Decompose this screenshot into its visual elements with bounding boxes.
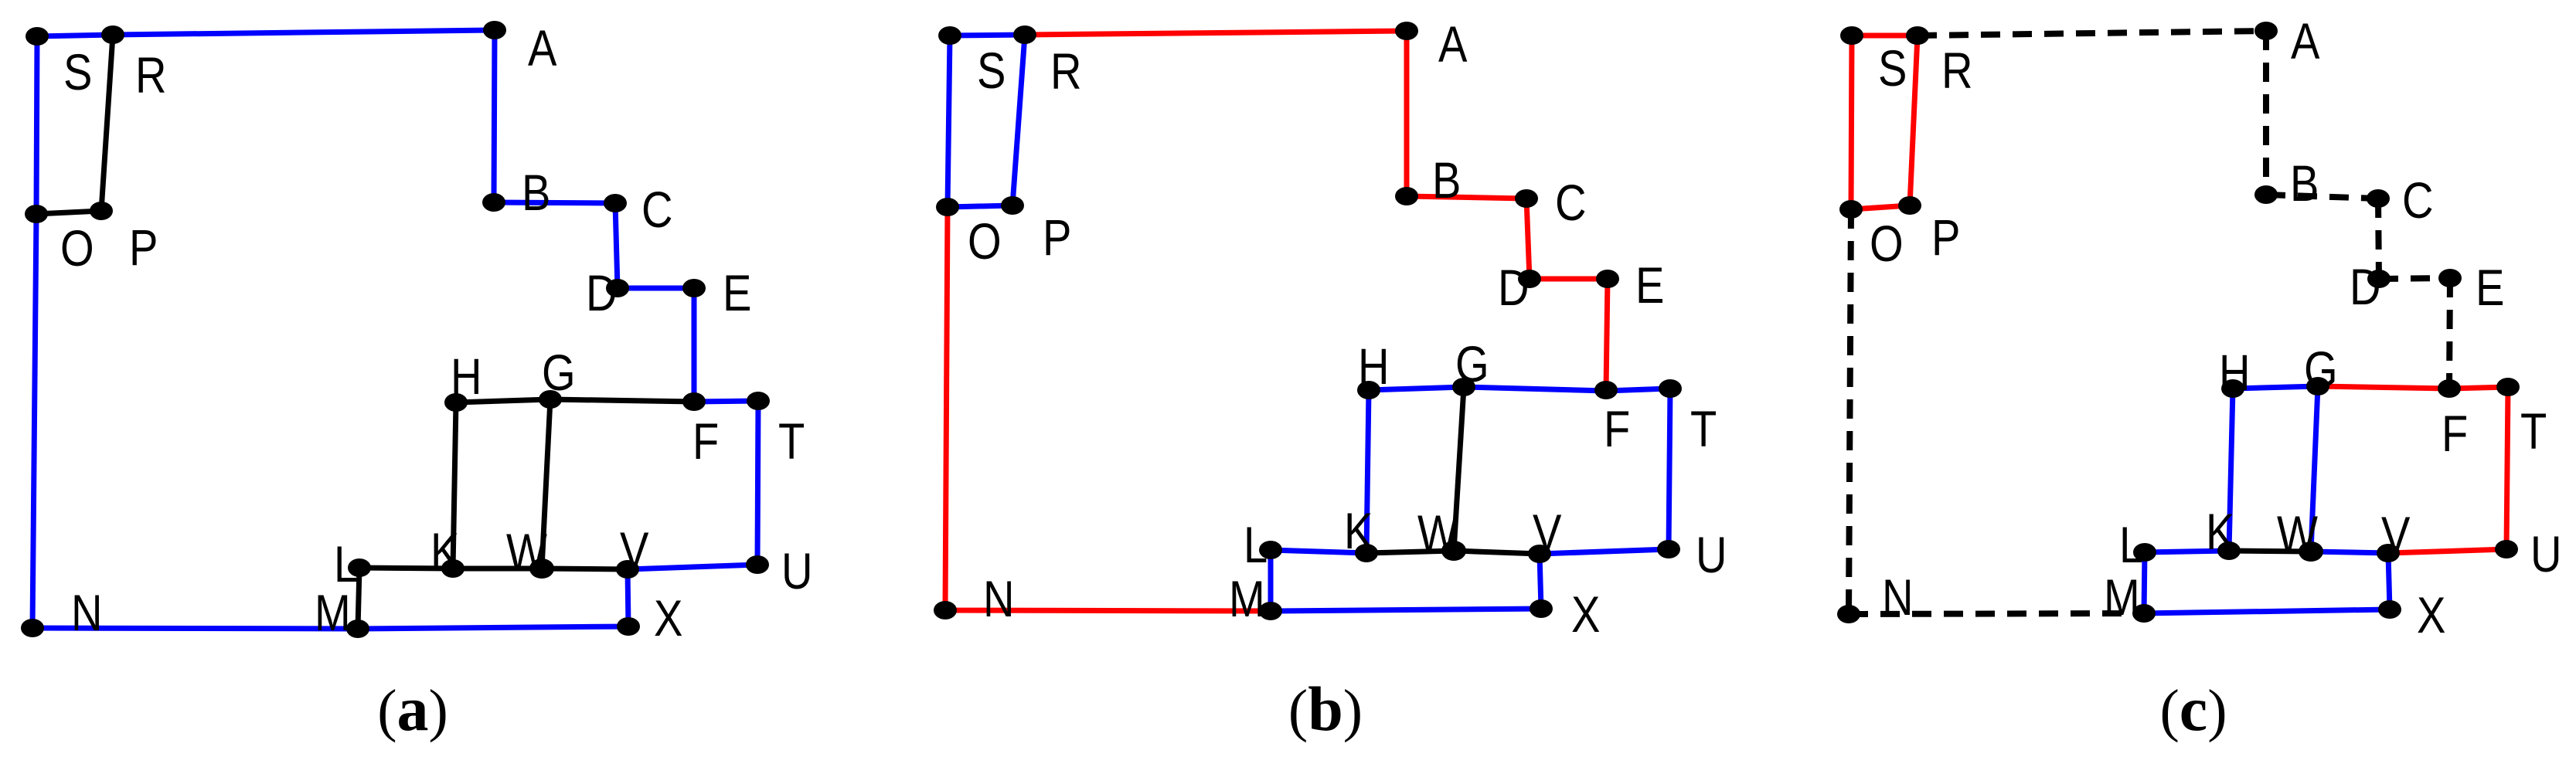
svg-text:H: H bbox=[1358, 338, 1390, 395]
svg-text:T: T bbox=[2520, 403, 2547, 460]
wire blue c: H-G bbox=[2233, 386, 2318, 389]
wire blue b: M-L-K bbox=[1271, 550, 1366, 611]
wire blue a: T-U-V bbox=[628, 401, 758, 569]
node B b bbox=[1395, 187, 1418, 205]
node F a bbox=[682, 392, 706, 411]
wire blue c: H-K bbox=[2229, 389, 2233, 551]
svg-text:D: D bbox=[1498, 260, 1530, 316]
node W c bbox=[2299, 541, 2323, 562]
svg-text:L: L bbox=[1244, 517, 1268, 573]
svg-text:N: N bbox=[983, 571, 1015, 627]
wire black b: G-W bbox=[1454, 387, 1464, 551]
wire dashed black c: B-C bbox=[2266, 195, 2378, 199]
node R a bbox=[101, 25, 124, 44]
wire blue b: rectangle S-R-P-O bbox=[948, 35, 1025, 207]
svg-text:A: A bbox=[2291, 13, 2320, 70]
svg-text:G: G bbox=[1455, 336, 1489, 392]
wire blue c: W-V bbox=[2311, 552, 2388, 553]
node G a bbox=[539, 390, 562, 409]
node C b bbox=[1515, 189, 1538, 208]
node L a bbox=[348, 558, 371, 577]
svg-text:W: W bbox=[506, 524, 547, 580]
wire black a: H-K bbox=[453, 402, 456, 569]
svg-text:S: S bbox=[1878, 40, 1907, 97]
svg-text:P: P bbox=[1931, 209, 1960, 266]
node W a bbox=[529, 558, 554, 579]
svg-text:P: P bbox=[129, 219, 158, 276]
wire dashed black c: O-N bbox=[1849, 209, 1851, 614]
svg-text:T: T bbox=[778, 413, 805, 470]
node O c bbox=[1839, 200, 1863, 219]
node P b bbox=[1001, 196, 1024, 215]
node O b bbox=[936, 198, 959, 216]
node V b bbox=[1528, 545, 1551, 563]
wire red b: R-A-B-C-D-E-F bbox=[1025, 31, 1608, 390]
wire dashed black c: E-F bbox=[2449, 278, 2450, 389]
wire black a: L-K-W-V bbox=[359, 568, 628, 569]
wire blue a: N-O-S bbox=[32, 36, 37, 628]
node R b bbox=[1013, 25, 1036, 44]
node G c bbox=[2306, 377, 2329, 395]
node W b bbox=[1441, 541, 1466, 561]
svg-text:D: D bbox=[2350, 259, 2381, 315]
node N b bbox=[934, 601, 957, 620]
node A b bbox=[1395, 22, 1418, 40]
wire blue a: F-T bbox=[694, 401, 758, 402]
svg-text:M: M bbox=[2104, 569, 2140, 626]
svg-text:G: G bbox=[542, 345, 576, 401]
node V a bbox=[616, 560, 639, 579]
node D c bbox=[2367, 270, 2391, 288]
svg-text:C: C bbox=[1555, 175, 1587, 231]
svg-text:O: O bbox=[968, 213, 1002, 270]
wire blue b: H-K bbox=[1366, 390, 1369, 553]
node U c bbox=[2495, 540, 2518, 558]
svg-text:O: O bbox=[60, 220, 94, 277]
wire blue b: T-U-V bbox=[1540, 389, 1670, 554]
node V c bbox=[2377, 544, 2400, 562]
node T c bbox=[2496, 378, 2520, 396]
node D a bbox=[606, 279, 629, 297]
wire black a: R-P bbox=[101, 35, 113, 211]
node E a bbox=[682, 279, 706, 297]
svg-text:D: D bbox=[586, 265, 618, 321]
svg-text:R: R bbox=[1941, 42, 1973, 99]
node X a bbox=[617, 617, 640, 636]
node B c bbox=[2254, 185, 2278, 204]
wire blue c: L-K bbox=[2145, 551, 2229, 552]
node K a bbox=[441, 559, 464, 578]
svg-text:F: F bbox=[1604, 401, 1630, 457]
node C c bbox=[2367, 189, 2390, 208]
svg-text:N: N bbox=[71, 585, 103, 641]
wire blue a: V-X-M-N bbox=[32, 569, 628, 629]
wire dashed black c: R-A bbox=[1918, 31, 2266, 36]
wire black a: P-O bbox=[36, 211, 101, 214]
node A c bbox=[2254, 22, 2278, 40]
svg-text:X: X bbox=[1571, 586, 1600, 643]
node S c bbox=[1840, 26, 1863, 45]
svg-text:B: B bbox=[2290, 155, 2319, 212]
svg-text:P: P bbox=[1043, 209, 1071, 266]
svg-text:N: N bbox=[1882, 569, 1914, 626]
svg-text:L: L bbox=[2119, 517, 2143, 573]
node K c bbox=[2217, 541, 2241, 560]
svg-text:H: H bbox=[2219, 345, 2251, 401]
wire blue a: S-R-A-B-C-D-E-F bbox=[37, 30, 694, 402]
svg-text:C: C bbox=[641, 182, 673, 238]
svg-text:E: E bbox=[1635, 257, 1664, 314]
node O a bbox=[25, 205, 48, 223]
wire dashed black c: D-E bbox=[2379, 278, 2450, 279]
svg-text:L: L bbox=[334, 536, 358, 592]
svg-text:R: R bbox=[1050, 43, 1082, 100]
node S b bbox=[938, 26, 961, 45]
node U b bbox=[1657, 540, 1680, 558]
svg-text:V: V bbox=[1533, 504, 1562, 561]
svg-text:K: K bbox=[2206, 504, 2235, 560]
svg-text:R: R bbox=[135, 47, 167, 104]
wire red c: T-U-V bbox=[2388, 387, 2508, 553]
svg-text:B: B bbox=[522, 165, 550, 221]
svg-text:T: T bbox=[1690, 401, 1717, 457]
svg-text:E: E bbox=[2476, 260, 2504, 316]
svg-text:(c): (c) bbox=[2159, 674, 2227, 744]
node A a bbox=[483, 21, 506, 39]
node N c bbox=[1837, 605, 1860, 623]
node X c bbox=[2378, 600, 2401, 619]
svg-text:F: F bbox=[2442, 406, 2468, 462]
wire blue b: H-G-F-T bbox=[1369, 387, 1670, 391]
node R c bbox=[1906, 26, 1929, 45]
node H c bbox=[2221, 379, 2244, 398]
node E c bbox=[2438, 269, 2462, 287]
node S a bbox=[26, 27, 49, 46]
node P a bbox=[90, 202, 113, 220]
svg-text:K: K bbox=[1344, 503, 1373, 559]
svg-text:B: B bbox=[1432, 152, 1461, 209]
node X b bbox=[1530, 599, 1553, 618]
node H b bbox=[1357, 381, 1380, 399]
svg-text:H: H bbox=[451, 348, 482, 405]
node M a bbox=[346, 620, 369, 638]
node L c bbox=[2133, 543, 2156, 562]
node G b bbox=[1452, 378, 1475, 396]
node T a bbox=[747, 392, 770, 410]
svg-text:(a): (a) bbox=[377, 674, 448, 744]
wire dashed black c: N-M bbox=[1849, 613, 2144, 614]
svg-text:A: A bbox=[1438, 16, 1468, 73]
svg-text:W: W bbox=[1417, 505, 1458, 562]
wire black a: G-W bbox=[542, 399, 550, 569]
node B a bbox=[482, 193, 505, 212]
svg-text:M: M bbox=[315, 585, 351, 641]
svg-text:X: X bbox=[654, 590, 682, 647]
wire dashed black c: A-B bbox=[2263, 31, 2269, 195]
wire red c: rectangle S-R-P-O bbox=[1851, 36, 1918, 209]
node U a bbox=[746, 555, 769, 574]
svg-text:U: U bbox=[781, 543, 813, 599]
node D b bbox=[1518, 270, 1541, 288]
svg-text:S: S bbox=[977, 42, 1006, 99]
svg-text:G: G bbox=[2304, 341, 2338, 398]
wire black c: K-W bbox=[2229, 551, 2311, 552]
svg-text:E: E bbox=[723, 265, 751, 321]
node K b bbox=[1355, 544, 1378, 562]
svg-text:K: K bbox=[430, 523, 460, 579]
node H a bbox=[444, 393, 468, 412]
node N a bbox=[21, 619, 44, 637]
node T b bbox=[1659, 379, 1682, 398]
node M b bbox=[1259, 602, 1282, 620]
node C a bbox=[604, 194, 627, 212]
node L b bbox=[1259, 541, 1282, 559]
svg-text:C: C bbox=[2402, 172, 2434, 229]
svg-text:U: U bbox=[2530, 526, 2562, 582]
node P c bbox=[1898, 196, 1921, 215]
wire blue c: M-X bbox=[2144, 609, 2390, 613]
wire black a: H-G-F bbox=[456, 399, 694, 402]
svg-text:V: V bbox=[2381, 507, 2411, 563]
wire blue c: X-V bbox=[2388, 553, 2390, 609]
node E b bbox=[1596, 270, 1619, 288]
svg-text:W: W bbox=[2277, 506, 2318, 562]
wire black a: L-M bbox=[358, 568, 359, 629]
node M c bbox=[2132, 604, 2156, 623]
svg-text:U: U bbox=[1696, 527, 1727, 583]
svg-text:A: A bbox=[528, 20, 557, 76]
wire red c: G-F-T bbox=[2318, 386, 2508, 389]
svg-text:O: O bbox=[1870, 216, 1904, 272]
svg-text:X: X bbox=[2417, 587, 2445, 643]
svg-text:V: V bbox=[620, 522, 649, 579]
wire red b: O-N-M bbox=[945, 207, 1271, 611]
wire blue b: V-X-M bbox=[1271, 554, 1541, 611]
wire black b: K-W-V bbox=[1366, 551, 1540, 554]
wire blue c: L-M bbox=[2144, 552, 2145, 613]
node F b bbox=[1594, 381, 1618, 399]
svg-text:M: M bbox=[1229, 571, 1265, 627]
wire blue c: G-W bbox=[2311, 386, 2318, 552]
wire dashed black c: C-D bbox=[2378, 199, 2379, 279]
node F c bbox=[2438, 379, 2461, 398]
svg-text:S: S bbox=[63, 44, 92, 100]
svg-text:F: F bbox=[692, 413, 719, 470]
svg-text:(b): (b) bbox=[1288, 674, 1363, 744]
